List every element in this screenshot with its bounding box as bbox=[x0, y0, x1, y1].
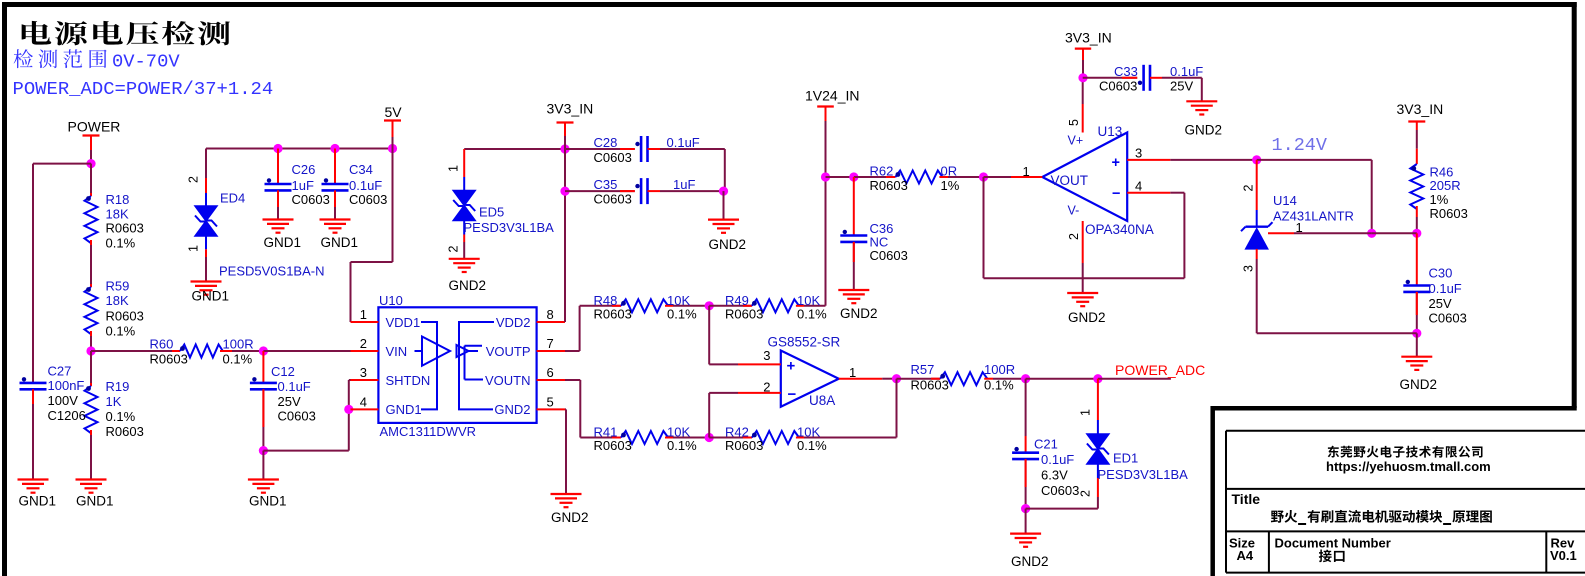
svg-text:POWER: POWER bbox=[68, 119, 121, 135]
svg-text:AZ431LANTR: AZ431LANTR bbox=[1273, 209, 1354, 224]
svg-text:0.1uF: 0.1uF bbox=[1041, 452, 1074, 467]
svg-text:−: − bbox=[788, 386, 797, 403]
svg-text:0.1uF: 0.1uF bbox=[349, 178, 382, 193]
svg-text:5V: 5V bbox=[385, 104, 403, 120]
svg-text:1: 1 bbox=[187, 245, 201, 252]
svg-text:1: 1 bbox=[1079, 409, 1093, 416]
svg-text:6: 6 bbox=[547, 365, 554, 380]
svg-text:C0603: C0603 bbox=[870, 248, 908, 263]
svg-text:1%: 1% bbox=[1430, 192, 1449, 207]
svg-text:ED1: ED1 bbox=[1113, 451, 1138, 466]
svg-text:R0603: R0603 bbox=[911, 378, 949, 393]
svg-text:1: 1 bbox=[1023, 164, 1030, 179]
svg-text:R0603: R0603 bbox=[594, 438, 632, 453]
svg-text:6.3V: 6.3V bbox=[1041, 468, 1068, 483]
svg-text:0.1uF: 0.1uF bbox=[278, 379, 311, 394]
svg-text:1: 1 bbox=[447, 165, 461, 172]
svg-text:C0603: C0603 bbox=[1099, 79, 1137, 94]
svg-text:PESD3V3L1BA: PESD3V3L1BA bbox=[464, 220, 555, 235]
svg-text:GND1: GND1 bbox=[249, 494, 287, 509]
svg-text:U13: U13 bbox=[1098, 124, 1123, 139]
svg-text:R59: R59 bbox=[106, 279, 130, 294]
svg-text:3: 3 bbox=[1242, 265, 1256, 272]
svg-text:4: 4 bbox=[1135, 179, 1142, 194]
svg-text:GND2: GND2 bbox=[709, 237, 747, 252]
svg-text:GND2: GND2 bbox=[551, 510, 589, 525]
svg-text:1: 1 bbox=[849, 365, 856, 380]
svg-text:0R: 0R bbox=[941, 164, 958, 179]
svg-text:0.1%: 0.1% bbox=[667, 307, 697, 322]
svg-text:R0603: R0603 bbox=[106, 221, 144, 236]
svg-text:100R: 100R bbox=[984, 362, 1015, 377]
svg-text:GND1: GND1 bbox=[264, 235, 302, 250]
svg-text:C30: C30 bbox=[1429, 266, 1453, 281]
svg-text:R18: R18 bbox=[106, 192, 130, 207]
svg-text:+: + bbox=[1112, 155, 1120, 171]
svg-text:C0603: C0603 bbox=[594, 150, 632, 165]
svg-text:100V: 100V bbox=[48, 393, 79, 408]
svg-text:0.1uF: 0.1uF bbox=[1170, 64, 1203, 79]
svg-text:C0603: C0603 bbox=[292, 192, 330, 207]
svg-text:POWER_ADC=POWER/37+1.24: POWER_ADC=POWER/37+1.24 bbox=[13, 78, 274, 100]
svg-text:PESD5V0S1BA-N: PESD5V0S1BA-N bbox=[219, 264, 325, 279]
svg-text:VDD1: VDD1 bbox=[386, 315, 421, 330]
svg-text:V+: V+ bbox=[1068, 134, 1084, 148]
svg-text:2: 2 bbox=[447, 246, 461, 253]
svg-text:R0603: R0603 bbox=[150, 352, 188, 367]
svg-text:0.1uF: 0.1uF bbox=[667, 135, 700, 150]
svg-text:GND2: GND2 bbox=[1400, 377, 1438, 392]
svg-text:2: 2 bbox=[1067, 233, 1081, 240]
svg-text:C1206: C1206 bbox=[48, 408, 86, 423]
svg-text:C34: C34 bbox=[349, 162, 373, 177]
svg-text:R0603: R0603 bbox=[870, 178, 908, 193]
svg-text:3V3_IN: 3V3_IN bbox=[1065, 30, 1112, 46]
svg-text:C12: C12 bbox=[271, 364, 295, 379]
svg-text:0.1%: 0.1% bbox=[797, 438, 827, 453]
svg-text:−: − bbox=[1112, 186, 1120, 202]
svg-text:GND1: GND1 bbox=[386, 402, 422, 417]
svg-text:1: 1 bbox=[360, 307, 367, 322]
svg-text:VOUT: VOUT bbox=[1051, 173, 1089, 188]
svg-text:4: 4 bbox=[360, 394, 367, 409]
svg-text:3: 3 bbox=[763, 348, 770, 363]
svg-text:3: 3 bbox=[1135, 146, 1142, 161]
svg-text:GND1: GND1 bbox=[321, 235, 359, 250]
svg-text:VDD2: VDD2 bbox=[496, 315, 531, 330]
svg-text:VOUTP: VOUTP bbox=[486, 344, 531, 359]
svg-text:Title: Title bbox=[1232, 491, 1261, 507]
svg-text:R19: R19 bbox=[106, 379, 130, 394]
svg-text:GND2: GND2 bbox=[1068, 310, 1106, 325]
svg-text:GND1: GND1 bbox=[19, 494, 57, 509]
svg-text:100R: 100R bbox=[223, 337, 254, 352]
svg-text:8: 8 bbox=[547, 307, 554, 322]
svg-text:https://yehuosm.tmall.com: https://yehuosm.tmall.com bbox=[1326, 459, 1491, 474]
svg-text:0.1%: 0.1% bbox=[797, 307, 827, 322]
svg-text:OPA340NA: OPA340NA bbox=[1085, 222, 1154, 237]
svg-text:VOUTN: VOUTN bbox=[485, 373, 531, 388]
svg-text:R60: R60 bbox=[150, 337, 174, 352]
svg-text:C21: C21 bbox=[1034, 437, 1058, 452]
svg-text:GS8552-SR: GS8552-SR bbox=[768, 335, 841, 350]
svg-text:GND2: GND2 bbox=[1185, 123, 1223, 138]
svg-text:Document Number: Document Number bbox=[1275, 536, 1391, 551]
svg-text:PESD3V3L1BA: PESD3V3L1BA bbox=[1098, 467, 1189, 482]
svg-text:R0603: R0603 bbox=[1430, 206, 1468, 221]
svg-text:R0603: R0603 bbox=[725, 438, 763, 453]
svg-text:1uF: 1uF bbox=[673, 177, 695, 192]
svg-text:GND2: GND2 bbox=[1011, 554, 1049, 569]
svg-text:18K: 18K bbox=[106, 207, 129, 222]
svg-text:GND1: GND1 bbox=[76, 494, 114, 509]
svg-text:0.1%: 0.1% bbox=[667, 438, 697, 453]
svg-text:0.1%: 0.1% bbox=[106, 324, 136, 339]
svg-text:0.1%: 0.1% bbox=[223, 352, 253, 367]
svg-text:C0603: C0603 bbox=[1041, 483, 1079, 498]
svg-text:2: 2 bbox=[360, 336, 367, 351]
svg-text:205R: 205R bbox=[1430, 178, 1461, 193]
svg-text:C28: C28 bbox=[594, 135, 618, 150]
svg-text:ED5: ED5 bbox=[479, 205, 504, 220]
svg-text:U10: U10 bbox=[379, 293, 403, 308]
svg-text:3V3_IN: 3V3_IN bbox=[1397, 101, 1444, 117]
svg-text:7: 7 bbox=[547, 336, 554, 351]
svg-text:C0603: C0603 bbox=[594, 192, 632, 207]
svg-text:C27: C27 bbox=[48, 364, 72, 379]
svg-text:0.1%: 0.1% bbox=[984, 378, 1014, 393]
svg-text:1uF: 1uF bbox=[292, 178, 314, 193]
svg-text:3V3_IN: 3V3_IN bbox=[547, 101, 594, 117]
svg-text:VIN: VIN bbox=[386, 344, 408, 359]
svg-text:ED4: ED4 bbox=[220, 191, 245, 206]
svg-text:2: 2 bbox=[1242, 185, 1256, 192]
svg-text:0V-70V: 0V-70V bbox=[112, 51, 180, 73]
svg-text:5: 5 bbox=[1067, 119, 1081, 126]
svg-text:+: + bbox=[787, 358, 796, 375]
svg-text:R57: R57 bbox=[911, 362, 935, 377]
svg-text:2: 2 bbox=[1079, 490, 1093, 497]
svg-text:A4: A4 bbox=[1237, 548, 1254, 563]
svg-text:U14: U14 bbox=[1273, 193, 1297, 208]
svg-text:C0603: C0603 bbox=[349, 192, 387, 207]
svg-text:C35: C35 bbox=[594, 177, 618, 192]
svg-text:R0603: R0603 bbox=[106, 424, 144, 439]
svg-text:25V: 25V bbox=[1429, 296, 1452, 311]
svg-text:1%: 1% bbox=[941, 178, 960, 193]
svg-text:R0603: R0603 bbox=[106, 309, 144, 324]
svg-text:5: 5 bbox=[547, 394, 554, 409]
svg-text:U8A: U8A bbox=[809, 393, 835, 408]
svg-text:V0.1: V0.1 bbox=[1550, 548, 1577, 563]
svg-text:0.1%: 0.1% bbox=[106, 409, 136, 424]
svg-text:2: 2 bbox=[187, 176, 201, 183]
svg-text:1K: 1K bbox=[106, 394, 122, 409]
svg-text:SHTDN: SHTDN bbox=[386, 373, 431, 388]
svg-text:1.24V: 1.24V bbox=[1272, 135, 1328, 156]
svg-text:C0603: C0603 bbox=[1429, 311, 1467, 326]
svg-text:100nF: 100nF bbox=[48, 378, 85, 393]
svg-text:3: 3 bbox=[360, 365, 367, 380]
svg-text:1V24_IN: 1V24_IN bbox=[805, 88, 859, 104]
svg-text:2: 2 bbox=[763, 380, 770, 395]
svg-text:POWER_ADC: POWER_ADC bbox=[1115, 362, 1205, 378]
svg-text:R0603: R0603 bbox=[725, 307, 763, 322]
svg-text:GND2: GND2 bbox=[494, 402, 530, 417]
svg-text:GND2: GND2 bbox=[449, 278, 487, 293]
svg-text:25V: 25V bbox=[278, 394, 301, 409]
svg-text:R62: R62 bbox=[870, 164, 894, 179]
svg-text:R0603: R0603 bbox=[594, 307, 632, 322]
svg-text:18K: 18K bbox=[106, 293, 129, 308]
svg-text:C26: C26 bbox=[292, 162, 316, 177]
svg-text:GND2: GND2 bbox=[840, 306, 878, 321]
svg-text:0.1uF: 0.1uF bbox=[1429, 281, 1462, 296]
svg-text:C33: C33 bbox=[1114, 64, 1138, 79]
svg-text:AMC1311DWVR: AMC1311DWVR bbox=[380, 424, 477, 439]
svg-text:25V: 25V bbox=[1170, 79, 1193, 94]
svg-text:GND1: GND1 bbox=[192, 289, 230, 304]
svg-text:V-: V- bbox=[1068, 204, 1080, 218]
svg-text:0.1%: 0.1% bbox=[106, 236, 136, 251]
svg-text:C0603: C0603 bbox=[278, 409, 316, 424]
